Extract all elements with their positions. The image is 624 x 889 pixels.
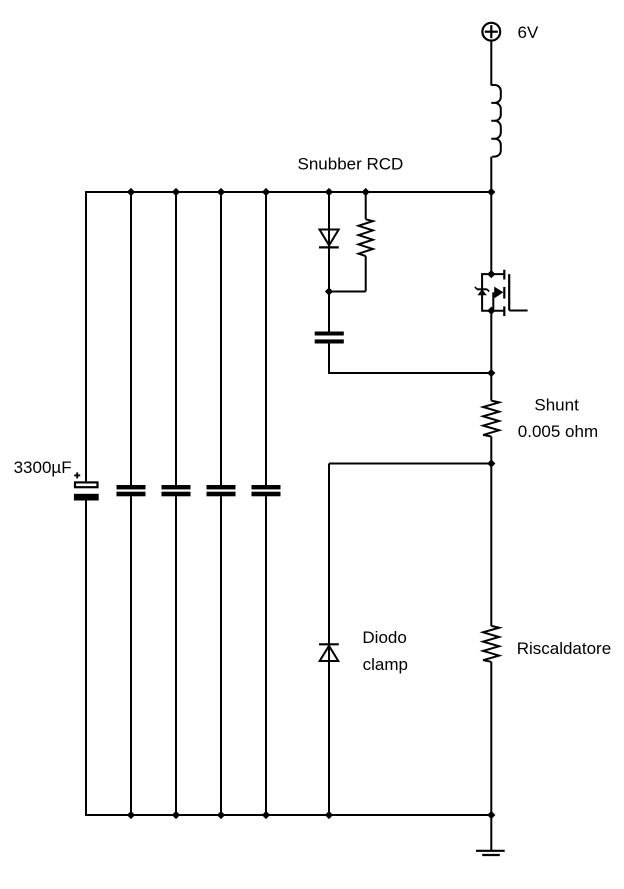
node dot shunt bottom	[487, 459, 495, 467]
diode D2 clamp	[319, 644, 339, 661]
wire snubber cap down	[328, 344, 330, 375]
capacitor C5	[252, 485, 281, 496]
node dot bottom C4	[217, 811, 225, 819]
node dot bottom clamp	[325, 811, 333, 819]
svg-text:3300µF: 3300µF	[14, 458, 72, 477]
channel contact bar bottom	[503, 306, 505, 316]
svg-text:Riscaldatore: Riscaldatore	[517, 639, 612, 658]
drain lead	[482, 273, 504, 275]
voltage source terminal 6V	[482, 23, 500, 41]
node dot bottom C5	[262, 811, 270, 819]
node dot mosfet drain	[487, 270, 495, 278]
wire C3 upper	[175, 192, 177, 485]
node dot snubber return	[487, 369, 495, 377]
node dot top rail snubber diode branch	[325, 188, 333, 196]
wire mosfet source down	[490, 311, 492, 401]
node dot top rail C2	[127, 188, 135, 196]
wire snubber resistor to diode node	[329, 291, 366, 293]
channel contact bar top	[503, 270, 505, 280]
body diode arrow	[475, 287, 489, 295]
capacitor C2	[117, 485, 146, 496]
source lead	[482, 310, 504, 312]
svg-text:Shunt: Shunt	[534, 395, 579, 414]
capacitor C1 3300uF electrolytic	[74, 482, 99, 500]
wire rail to snubber diode	[328, 192, 330, 248]
wire snubber cap to mosfet source rail	[328, 372, 491, 374]
wire snubber resistor down	[365, 256, 367, 291]
left vertical wire (electrolytic branch)	[85, 191, 87, 481]
node dot snubber RC junction	[325, 287, 333, 295]
ground	[476, 851, 505, 855]
wire snubber diode to node	[328, 247, 330, 291]
wire heater to bottom rail	[490, 662, 492, 815]
wire C2 upper	[130, 192, 132, 485]
wire electrolytic to bottom rail	[85, 501, 87, 816]
resistor R3 riscaldatore	[483, 626, 499, 662]
wire C4 lower	[220, 496, 222, 815]
diode D1 snubber	[319, 230, 339, 248]
body-diode left branch	[481, 273, 483, 312]
wire source to inductor	[490, 41, 492, 86]
gate bar	[508, 274, 510, 310]
resistor R2 shunt	[483, 401, 499, 437]
plus mark electrolytic	[74, 472, 80, 478]
node dot bottom ground	[487, 811, 495, 819]
svg-text:Snubber RCD: Snubber RCD	[298, 155, 404, 174]
svg-text:0.005 ohm: 0.005 ohm	[518, 422, 598, 441]
svg-text:6V: 6V	[518, 23, 539, 42]
wire clamp branch down	[328, 464, 330, 663]
wire rail to snubber resistor	[365, 192, 367, 219]
gate lead	[509, 310, 527, 312]
channel contact bar middle	[503, 287, 505, 299]
bottom rail wire	[85, 814, 491, 816]
capacitor C4	[207, 485, 236, 496]
capacitor C3	[162, 485, 191, 496]
wire C5 lower	[265, 496, 267, 815]
wire node to snubber cap	[328, 292, 330, 332]
node dot top rail snubber resistor branch	[362, 188, 370, 196]
svg-text:Diodo: Diodo	[362, 628, 406, 647]
node dot bottom C2	[127, 811, 135, 819]
inductor L1	[491, 85, 501, 157]
wire shunt to node	[490, 437, 492, 464]
wire shunt node to heater	[490, 464, 492, 626]
node dot top rail C5	[262, 188, 270, 196]
wire shunt node to clamp branch	[329, 463, 491, 465]
node dot top rail C4	[217, 188, 225, 196]
body arrow to source	[494, 287, 503, 299]
capacitor C6 snubber	[315, 332, 344, 344]
transistor Q1 MOSFET	[475, 270, 528, 316]
node dot bottom C3	[172, 811, 180, 819]
resistor R1 snubber	[359, 219, 373, 256]
wire to ground	[490, 815, 492, 851]
wire C5 upper	[265, 192, 267, 485]
wire clamp diode to bottom rail	[328, 661, 330, 815]
wire C4 upper	[220, 192, 222, 485]
svg-text:clamp: clamp	[363, 655, 408, 674]
node dot mosfet source	[487, 307, 495, 315]
wire C2 lower	[130, 496, 132, 815]
node dot top rail C3	[172, 188, 180, 196]
wire top rail to mosfet drain	[487, 188, 495, 196]
node dot rail-inductor	[490, 192, 492, 274]
wire inductor to top rail	[490, 157, 492, 192]
wire C3 lower	[175, 496, 177, 815]
top rail wire	[85, 191, 491, 193]
